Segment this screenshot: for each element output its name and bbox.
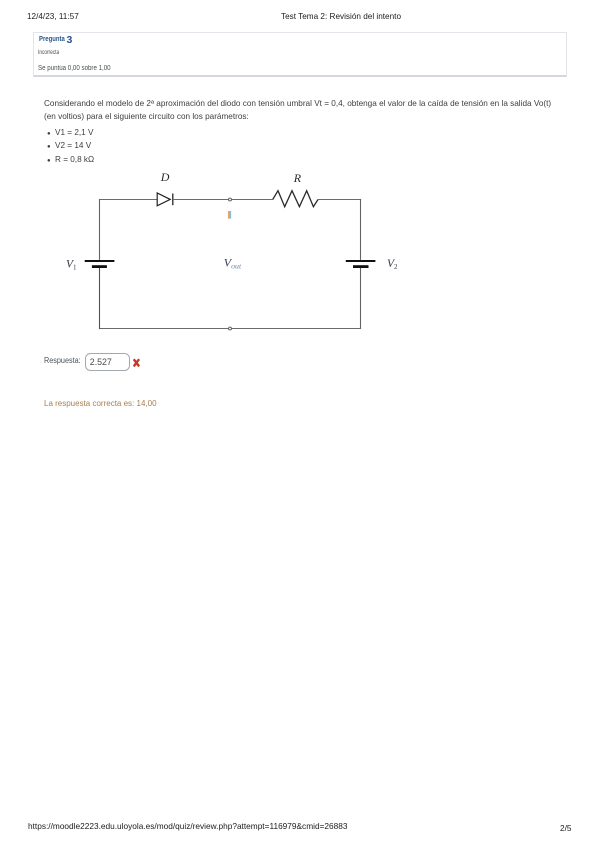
footer page	[560, 823, 572, 833]
wire resistor to right corner	[318, 199, 361, 201]
header date	[27, 12, 79, 21]
wire left vertical lower	[99, 268, 101, 329]
question text	[44, 97, 584, 123]
wire diode to node	[173, 199, 228, 201]
circuit schematic	[0, 0, 599, 460]
wire right vertical lower	[360, 268, 362, 329]
question info box	[33, 32, 567, 77]
answer input box	[85, 353, 130, 371]
svg-text:V2: V2	[387, 258, 398, 271]
correct answer text	[44, 400, 157, 409]
header title	[281, 12, 401, 21]
footer url	[28, 821, 348, 831]
svg-text:Vout: Vout	[224, 256, 242, 271]
battery V2	[346, 261, 376, 267]
wire node to resistor	[232, 199, 273, 201]
wire right vertical upper	[360, 199, 362, 260]
wire top-left horizontal	[99, 199, 157, 201]
svg-text:V1: V1	[66, 258, 77, 271]
node top (output node)	[229, 198, 232, 201]
wire bottom left horizontal	[99, 328, 228, 330]
battery V1	[85, 261, 115, 267]
diode D	[157, 193, 173, 206]
resistor R	[273, 191, 318, 207]
svg-text:R: R	[293, 171, 302, 185]
svg-text:D: D	[160, 170, 170, 184]
wire left vertical upper	[99, 199, 101, 260]
answer row	[44, 357, 81, 365]
node bottom	[229, 327, 232, 330]
incorrect mark	[133, 358, 141, 368]
polarity mark +	[228, 211, 231, 219]
wire bottom right horizontal	[232, 328, 361, 330]
